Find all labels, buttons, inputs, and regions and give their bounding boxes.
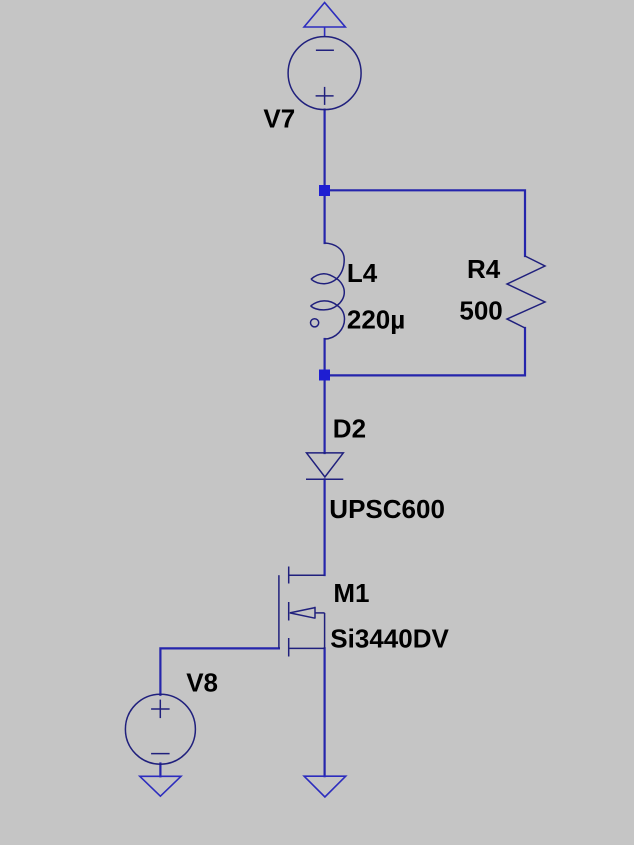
svg-text:500: 500 xyxy=(459,295,502,325)
svg-text:V8: V8 xyxy=(186,667,218,697)
svg-text:Si3440DV: Si3440DV xyxy=(330,623,449,653)
svg-text:D2: D2 xyxy=(333,413,366,443)
svg-text:R4: R4 xyxy=(467,254,501,284)
svg-text:220µ: 220µ xyxy=(347,304,405,334)
svg-text:UPSC600: UPSC600 xyxy=(329,494,445,524)
svg-text:V7: V7 xyxy=(263,104,295,134)
svg-text:L4: L4 xyxy=(347,258,378,288)
svg-text:M1: M1 xyxy=(333,578,369,608)
